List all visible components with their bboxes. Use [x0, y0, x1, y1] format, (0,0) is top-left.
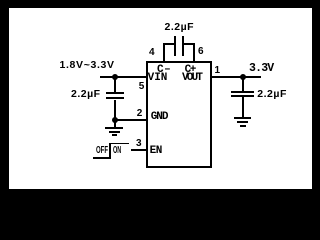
wire C1 right plate to pin 6 — [184, 43, 195, 45]
pin number 6 — [198, 47, 204, 57]
capacitor C3 bottom plate — [231, 95, 254, 97]
node input junction — [112, 74, 118, 80]
wire VOUT pin 1 — [211, 76, 261, 78]
pin number 4 — [149, 48, 155, 58]
ground left symbol — [105, 127, 123, 129]
ground right symbol — [234, 117, 251, 119]
wire input junction to C2 — [114, 77, 116, 92]
wire output junction to C3 — [242, 77, 244, 91]
net label 3.3V — [249, 63, 273, 75]
net label 1.8V~3.3V — [60, 60, 115, 71]
wire C3 to ground — [242, 97, 244, 117]
capacitor C1 value 2.2uF — [165, 22, 195, 33]
pin label GND — [151, 112, 168, 123]
waveform rising edge — [109, 143, 111, 160]
pin label VIN — [148, 73, 168, 84]
capacitor C2 top plate — [106, 92, 124, 94]
pin label C- — [157, 65, 171, 76]
pin number 1 — [215, 66, 221, 76]
label ON — [113, 146, 121, 156]
capacitor C2 bottom plate — [106, 97, 124, 99]
wire pin 4 to C1 left plate — [163, 43, 175, 45]
capacitor C3 top plate — [231, 91, 254, 93]
label OFF — [96, 146, 108, 156]
capacitor C1 left plate — [174, 36, 176, 56]
waveform low segment — [93, 157, 111, 159]
node ground junction — [112, 117, 118, 123]
pin label VOUT — [182, 73, 201, 84]
node output junction — [240, 74, 246, 80]
pin label EN — [150, 146, 162, 157]
capacitor C1 right plate — [182, 36, 184, 56]
white canvas — [9, 8, 312, 189]
pin number 3 — [136, 139, 142, 149]
capacitor C2 value 2.2uF — [71, 89, 101, 100]
wire VIN input — [100, 76, 146, 78]
wire GND pin 2 — [114, 119, 146, 121]
capacitor C3 value 2.2uF — [257, 89, 287, 100]
pin label C+ — [185, 65, 195, 76]
wire C2 to ground junction — [114, 100, 116, 121]
waveform high segment — [109, 143, 129, 145]
pin number 2 — [137, 109, 143, 119]
wire pin 6 stub — [193, 44, 195, 62]
wire ground stub — [114, 120, 116, 128]
wire pin 4 stub — [163, 44, 165, 62]
wire EN pin 3 — [131, 149, 146, 151]
pin number 5 — [139, 82, 145, 92]
op-amp U1 charge-pump IC body — [146, 61, 212, 168]
